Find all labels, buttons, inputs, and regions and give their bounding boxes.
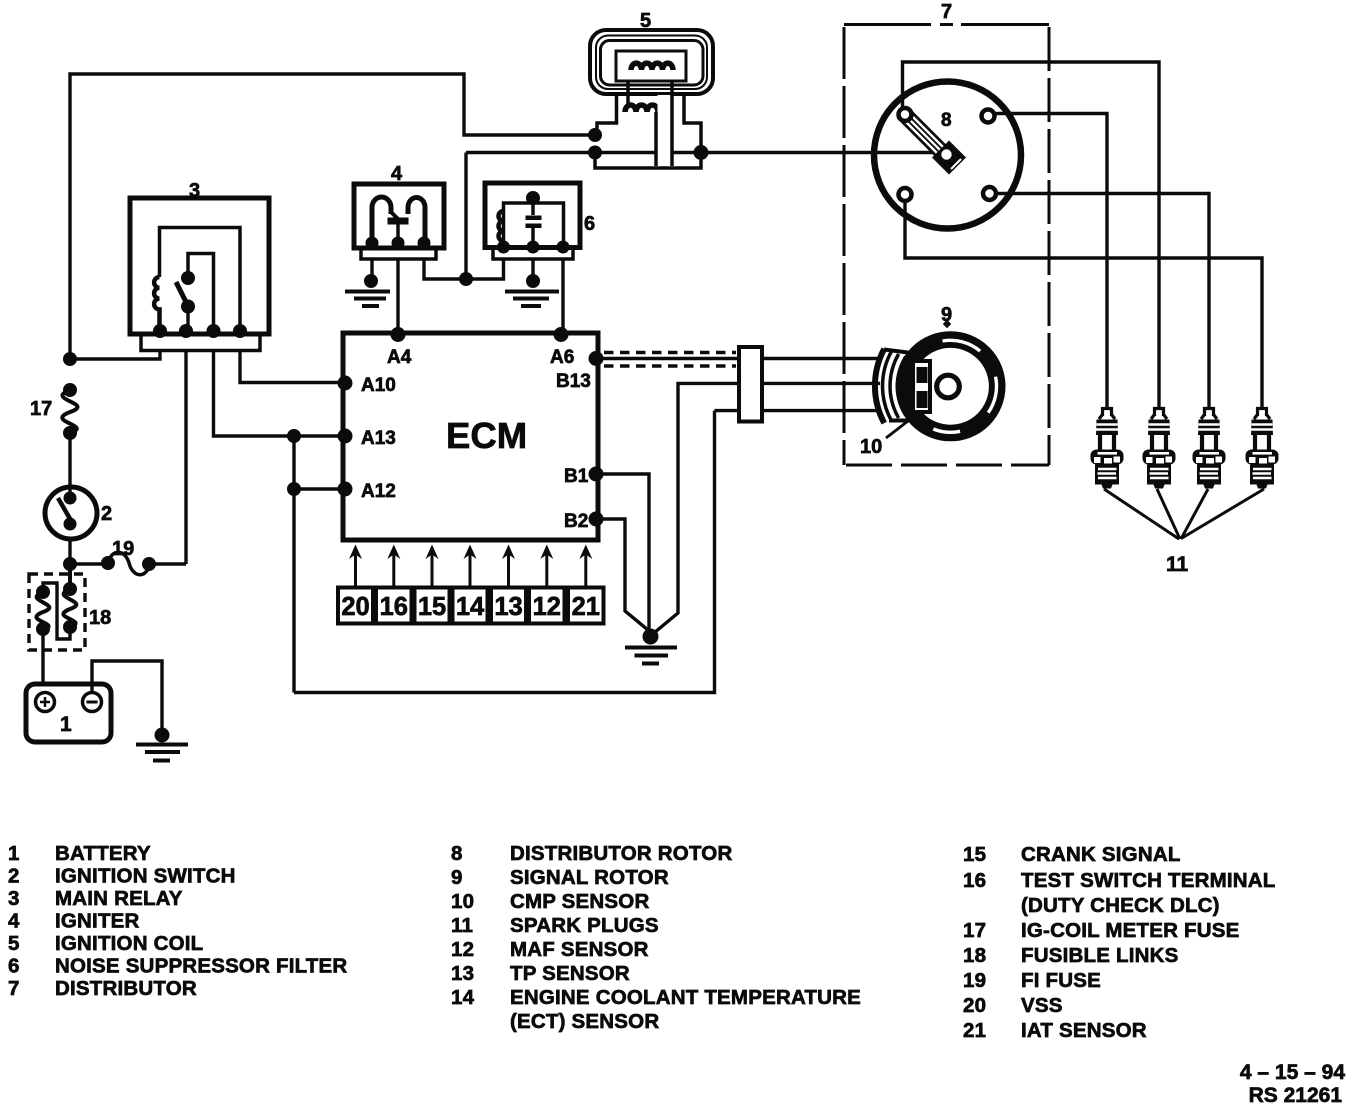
svg-text:1: 1 (8, 842, 20, 865)
label 5 (640, 10, 651, 32)
wire battery minus to ground (92, 661, 162, 729)
pin B2 (564, 511, 604, 532)
svg-text:21: 21 (963, 1019, 986, 1042)
wire igniter pin3 to suppressor (424, 259, 504, 279)
pin A12 (338, 481, 396, 502)
legend column 3 (963, 843, 1276, 1042)
shielded cable dashes (604, 353, 736, 367)
svg-text:CMP SENSOR: CMP SENSOR (510, 890, 649, 913)
svg-text:IAT SENSOR: IAT SENSOR (1021, 1019, 1147, 1042)
svg-text:11: 11 (451, 914, 473, 937)
svg-text:A13: A13 (361, 428, 396, 449)
svg-text:B2: B2 (564, 511, 588, 532)
wire CMP bottom to return (715, 409, 881, 412)
node junction at relay tap (63, 352, 77, 366)
svg-text:20: 20 (963, 994, 986, 1017)
label 10 with leader (860, 421, 908, 458)
label 4 (391, 163, 403, 185)
coil internal legs (597, 81, 701, 152)
svg-text:A4: A4 (387, 347, 412, 368)
ground battery (136, 728, 188, 761)
svg-text:20: 20 (341, 593, 369, 621)
ground suppressor (505, 274, 559, 306)
svg-text:FI FUSE: FI FUSE (1021, 969, 1101, 992)
wire relay terminal 3 to ECM A13 (214, 350, 344, 436)
svg-text:NOISE SUPPRESSOR FILTER: NOISE SUPPRESSOR FILTER (55, 955, 347, 978)
svg-text:7: 7 (8, 977, 20, 1000)
ground ECM (625, 629, 677, 664)
svg-text:16: 16 (380, 593, 408, 621)
svg-text:IGNITION COIL: IGNITION COIL (55, 932, 203, 955)
node coil base right (694, 145, 709, 160)
relay bottom connector strip (141, 336, 260, 351)
svg-text:ECM: ECM (446, 415, 527, 456)
svg-text:SPARK PLUGS: SPARK PLUGS (510, 914, 659, 937)
label 7 (941, 1, 952, 23)
relay switch frame (188, 254, 214, 332)
svg-text:12: 12 (451, 938, 474, 961)
suppressor connector strip (493, 249, 573, 259)
svg-text:5: 5 (640, 10, 651, 32)
svg-text:TEST SWITCH TERMINAL: TEST SWITCH TERMINAL (1021, 869, 1276, 892)
svg-text:10: 10 (860, 436, 882, 458)
spark plug 11-1 (1091, 409, 1124, 489)
svg-text:BATTERY: BATTERY (55, 842, 151, 865)
fuse F17 IG-coil meter fuse (62, 383, 77, 440)
wire NW terminal to plug 2 (903, 62, 1160, 407)
pin B13 label (556, 371, 591, 392)
spark plug 11-3 (1193, 409, 1226, 489)
svg-text:RS 21261: RS 21261 (1249, 1084, 1343, 1107)
wire branch down-left of ECM (292, 436, 295, 693)
rotor terminal SW (899, 188, 912, 201)
svg-text:11: 11 (1166, 553, 1189, 576)
coil HT stem (656, 81, 672, 166)
wire switch to fuse node (68, 539, 71, 564)
noise suppressor filter 6 (485, 183, 580, 248)
svg-text:DISTRIBUTOR ROTOR: DISTRIBUTOR ROTOR (510, 842, 732, 865)
svg-text:4 – 15 – 94: 4 – 15 – 94 (1240, 1061, 1345, 1084)
wire fusible links series U link (43, 583, 70, 639)
distributor rotor 8 cap circle (874, 82, 1021, 229)
sensor input boxes under ECM (338, 588, 604, 624)
wire igniter pin1 to ground (370, 259, 373, 276)
plug leader lines to label 11 (1104, 489, 1264, 539)
svg-text:10: 10 (451, 890, 474, 913)
pin A6 right dot (589, 351, 604, 366)
wire SW terminal to plug 4 (905, 201, 1262, 407)
relay terminal dots (153, 324, 247, 338)
CMP connector (739, 347, 762, 422)
svg-text:IGNITER: IGNITER (55, 910, 140, 933)
relay inner frame (160, 228, 241, 332)
wire suppressor pin2 to ground (531, 259, 534, 277)
spark plug 11-4 (1246, 409, 1279, 489)
label 17 (30, 398, 52, 420)
fuse F19 FI fuse (70, 552, 186, 575)
svg-text:18: 18 (963, 944, 986, 967)
wire A6 to CMP connector (596, 357, 880, 360)
wire CMP middle to ECM ground (652, 383, 881, 635)
rotor terminal NE (982, 110, 995, 123)
label 19 (112, 538, 134, 560)
distributor 7 dashed boundary (844, 25, 1049, 466)
node coil base left (588, 146, 602, 160)
svg-text:MAF SENSOR: MAF SENSOR (510, 938, 649, 961)
pin B1 (564, 466, 604, 487)
svg-text:13: 13 (494, 593, 522, 621)
pin A10 (338, 375, 396, 396)
rotor terminal SE (983, 187, 996, 200)
svg-text:TP SENSOR: TP SENSOR (510, 962, 630, 985)
svg-text:17: 17 (963, 919, 986, 942)
svg-text:CRANK SIGNAL: CRANK SIGNAL (1021, 843, 1181, 866)
fusible links F18 dashed box (29, 574, 85, 650)
wire relay terminal 4 to ECM A10 (240, 350, 343, 383)
svg-text:2: 2 (101, 503, 112, 525)
svg-text:FUSIBLE LINKS: FUSIBLE LINKS (1021, 944, 1179, 967)
label 1 (60, 713, 72, 736)
svg-text:15: 15 (963, 843, 986, 866)
svg-text:17: 17 (30, 398, 52, 420)
svg-text:8: 8 (941, 110, 952, 131)
wire relay terminal 1 to battery riser (70, 350, 160, 359)
svg-text:B1: B1 (564, 466, 589, 487)
svg-text:15: 15 (418, 593, 446, 621)
ignition coil 5 case (590, 30, 713, 94)
suppressor inner network (499, 191, 564, 247)
label 8 (941, 110, 952, 131)
pin A4 (387, 327, 412, 368)
sensor input arrows (349, 545, 592, 588)
legend column 2 (451, 842, 861, 1033)
svg-text:DISTRIBUTOR: DISTRIBUTOR (55, 977, 197, 1000)
svg-text:7: 7 (941, 1, 952, 23)
igniter terminal dots (366, 237, 431, 250)
label ECM (446, 415, 527, 456)
node A13 branch (287, 429, 301, 443)
node coil-B branch (459, 272, 473, 286)
wire branch to ECM A12 (294, 487, 343, 490)
svg-text:4: 4 (391, 163, 403, 185)
wire NE terminal to plug 1 (994, 114, 1107, 408)
coil base outline (595, 153, 701, 168)
svg-text:VSS: VSS (1021, 994, 1063, 1017)
wire coil primary bus to distributor rotor (466, 151, 940, 154)
sensor box numbers (341, 593, 600, 621)
svg-text:3: 3 (189, 180, 200, 202)
wire battery feed top: left riser and run to coil (70, 74, 597, 359)
svg-text:A6: A6 (550, 347, 574, 368)
CMP sensor 10 pickup arcs (875, 349, 912, 423)
svg-text:IG-COIL METER FUSE: IG-COIL METER FUSE (1021, 919, 1239, 942)
label 9 (941, 304, 952, 328)
suppressor terminal dots (497, 241, 570, 254)
CMP sensor element (913, 361, 930, 412)
svg-text:19: 19 (963, 969, 986, 992)
svg-text:A10: A10 (361, 375, 396, 396)
main relay 3 (130, 198, 269, 334)
svg-text:1: 1 (60, 713, 72, 736)
svg-text:12: 12 (533, 593, 561, 621)
svg-text:8: 8 (451, 842, 463, 865)
coil secondary winding (625, 105, 658, 112)
label 18 (89, 607, 111, 629)
legend column 1 (8, 842, 347, 1000)
wire coil minus drop (464, 153, 467, 280)
svg-text:9: 9 (451, 866, 463, 889)
label 2 (101, 503, 112, 525)
fusible link A (63, 564, 77, 634)
wire SE terminal to plug 3 (996, 194, 1209, 408)
svg-text:6: 6 (8, 955, 20, 978)
rotor arm hatched (897, 107, 966, 175)
wire igniter pin2 to ECM A4 (396, 259, 399, 333)
wire B2 to ground (596, 519, 648, 630)
label 11 (1166, 553, 1189, 576)
battery 1 (26, 684, 111, 742)
node A12 branch (287, 482, 301, 496)
fusible link B (36, 585, 50, 636)
svg-text:3: 3 (8, 887, 20, 910)
svg-text:(ECT) SENSOR: (ECT) SENSOR (510, 1010, 659, 1033)
node ignition switch output (63, 557, 77, 571)
svg-text:MAIN RELAY: MAIN RELAY (55, 887, 183, 910)
ignition switch SW2 (45, 487, 97, 539)
svg-text:5: 5 (8, 932, 20, 955)
wire link B to battery plus (41, 629, 44, 686)
svg-text:19: 19 (112, 538, 134, 560)
coil primary winding (631, 63, 673, 70)
wire relay terminal 2 drop (184, 350, 187, 564)
svg-text:B13: B13 (556, 371, 591, 392)
node coil primary left (588, 128, 602, 142)
pin A6 top (550, 327, 574, 368)
svg-text:(DUTY CHECK DLC): (DUTY CHECK DLC) (1021, 894, 1220, 917)
relay switch contacts (176, 271, 195, 331)
wire B1 to ground (596, 474, 649, 631)
svg-text:6: 6 (584, 213, 595, 235)
svg-text:21: 21 (572, 593, 600, 621)
label 3 (189, 180, 200, 202)
igniter 4 (354, 184, 444, 248)
spark plug 11-2 (1143, 409, 1176, 489)
svg-text:IGNITION SWITCH: IGNITION SWITCH (55, 865, 236, 888)
svg-text:A12: A12 (361, 481, 396, 502)
wire suppressor pin3 to ECM A6 (561, 259, 564, 333)
svg-text:16: 16 (963, 869, 986, 892)
svg-text:2: 2 (8, 865, 20, 888)
footer date code (1240, 1061, 1345, 1107)
svg-text:14: 14 (456, 593, 485, 621)
svg-text:4: 4 (8, 910, 20, 933)
igniter internal symbol (372, 197, 425, 243)
svg-text:ENGINE COOLANT TEMPERATURE: ENGINE COOLANT TEMPERATURE (510, 986, 861, 1009)
label 6 (584, 213, 595, 235)
wire ECM bottom loop to CMP return (294, 411, 715, 693)
relay coil (154, 277, 159, 331)
pin A13 (338, 428, 396, 449)
wire fuse17 to ignition switch (68, 434, 71, 488)
svg-text:SIGNAL ROTOR: SIGNAL ROTOR (510, 866, 669, 889)
signal rotor 9 (904, 340, 997, 433)
rotor terminal NW (899, 108, 912, 121)
svg-text:13: 13 (451, 962, 474, 985)
svg-text:14: 14 (451, 986, 475, 1009)
igniter connector strip (361, 248, 436, 259)
ECM U1 box (343, 333, 598, 540)
ground igniter (345, 274, 390, 306)
svg-text:18: 18 (89, 607, 111, 629)
